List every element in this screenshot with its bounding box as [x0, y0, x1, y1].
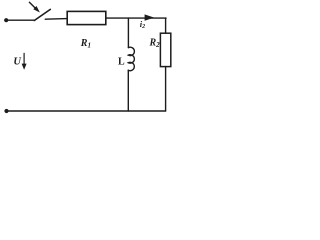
- inductor L coil: [128, 47, 134, 71]
- wire bottom horizontal: [7, 110, 166, 112]
- svg-text:L: L: [118, 56, 125, 67]
- node top-left terminal: [4, 18, 8, 22]
- wire R2 to bottom: [165, 67, 167, 111]
- wire top-left horizontal: [6, 19, 34, 21]
- node bottom-left terminal: [4, 109, 8, 113]
- voltage arrow U direction: [22, 53, 27, 69]
- current arrow i2: [145, 14, 155, 20]
- node junction middle branch: [127, 18, 129, 47]
- resistor R2: [160, 33, 170, 66]
- wire inductor to bottom: [127, 70, 129, 111]
- wire switch to R1: [45, 18, 67, 21]
- switch actuation arrow: [29, 2, 40, 12]
- switch S blade: [34, 9, 50, 20]
- wire R1 to right corner: [106, 17, 166, 19]
- wire right corner down to R2: [165, 18, 167, 33]
- resistor R1: [67, 11, 106, 24]
